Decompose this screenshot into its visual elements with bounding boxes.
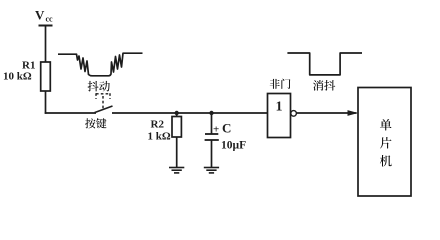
svg-text:1: 1 — [276, 100, 283, 115]
svg-text:V: V — [35, 8, 45, 23]
switch S (push-button) lever — [95, 106, 113, 113]
label push-button (an jian) — [85, 118, 106, 128]
ground (R2) — [169, 168, 184, 173]
svg-text:R2: R2 — [151, 119, 165, 131]
resistor R2 — [172, 113, 181, 168]
MCU box (dan pian ji) — [358, 88, 411, 197]
label R2 1kOhm — [148, 119, 171, 143]
power symbol Vcc — [35, 8, 53, 26]
switch actuator dashed — [96, 93, 110, 108]
svg-text:C: C — [222, 121, 231, 136]
capacitor C (polarized) — [205, 113, 219, 168]
waveform with bounce — [58, 53, 143, 76]
wire node A to switch — [45, 112, 96, 114]
label + C 10uF — [213, 121, 246, 152]
output bubble — [291, 111, 297, 117]
wire Vcc to R1 — [45, 26, 47, 63]
junction node C — [209, 111, 213, 115]
label debounce (xiao dou) — [313, 80, 335, 91]
NOT gate U1 (fei men) — [268, 94, 291, 138]
svg-text:cc: cc — [46, 15, 54, 24]
wire R1 to node A — [45, 91, 47, 114]
wire gate output to MCU with arrow — [296, 110, 358, 116]
resistor R1 — [41, 62, 51, 91]
label R1 10 kOhm — [3, 60, 35, 83]
label jitter (dou dong) — [88, 81, 110, 92]
svg-text:10 kΩ: 10 kΩ — [3, 71, 32, 83]
junction node R2 — [175, 111, 179, 115]
label MCU (dan pian ji) vertical — [380, 119, 392, 167]
waveform debounced — [287, 53, 362, 75]
wire switch to gate input — [112, 112, 268, 114]
label NOT gate (fei men) — [270, 79, 291, 89]
ground (C) — [204, 168, 219, 173]
svg-text:1 kΩ: 1 kΩ — [148, 131, 171, 143]
svg-text:+: + — [213, 124, 219, 136]
svg-text:10µF: 10µF — [221, 140, 246, 152]
